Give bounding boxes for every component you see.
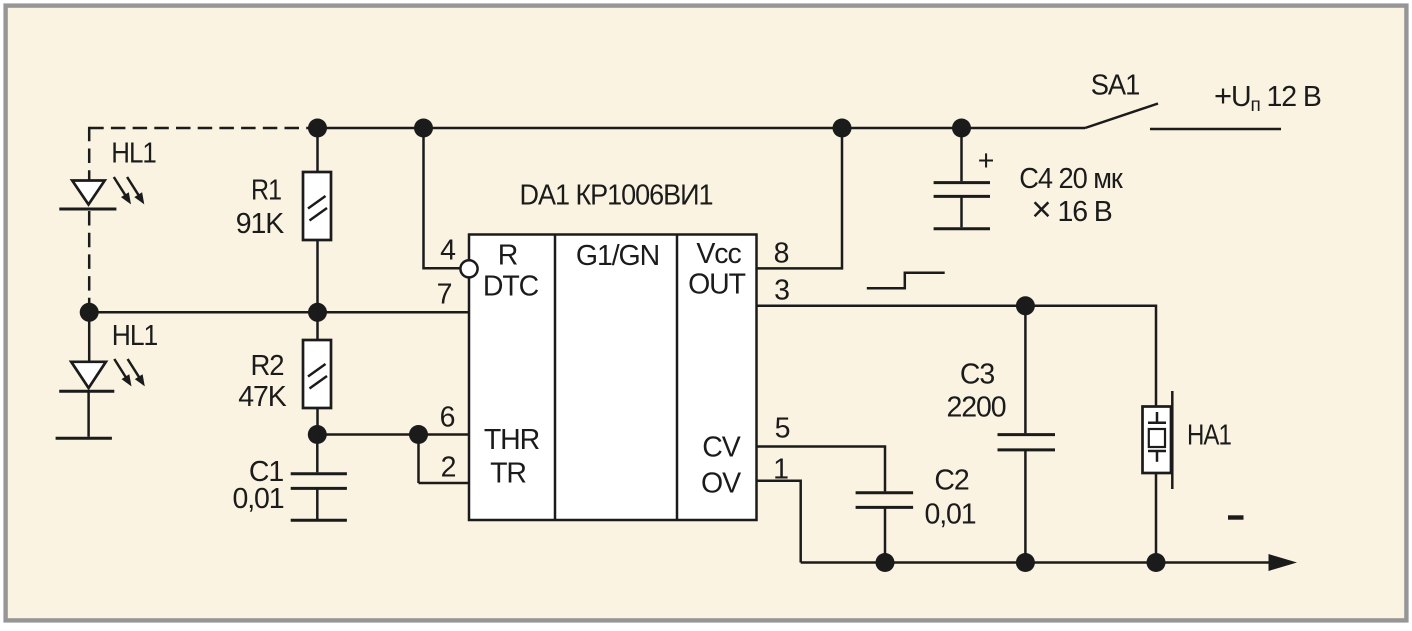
wire: dashed vertical HL1 cathode to mid rail bbox=[88, 211, 91, 312]
buzzer HA1 bbox=[1143, 391, 1173, 489]
LED HL1 (upper) bbox=[59, 181, 116, 210]
wire: mid rail to R2 top bbox=[316, 312, 319, 340]
node: top rail at pin4 drop bbox=[414, 119, 433, 138]
svg-text:+: + bbox=[978, 145, 994, 177]
wire: mid rail to pin 7 bbox=[89, 311, 469, 314]
wire: pin4 drop from top rail bbox=[424, 128, 461, 268]
HL1 upper light arrows bbox=[114, 177, 145, 204]
svg-text:C3: C3 bbox=[960, 359, 994, 391]
svg-text:Vcc: Vcc bbox=[696, 238, 741, 270]
node: top rail at R1 bbox=[308, 119, 327, 138]
node: C2 on bottom rail bbox=[876, 553, 895, 572]
svg-text:G1/GN: G1/GN bbox=[576, 240, 659, 272]
svg-text:91K: 91K bbox=[236, 208, 285, 240]
wire: HL2 anode bbox=[88, 312, 91, 362]
switch SA1 blade bbox=[1085, 104, 1158, 129]
capacitor C1 bbox=[291, 435, 347, 521]
wire: pin 5 to C2 bbox=[757, 447, 886, 492]
terminal bar below lower HL1 bbox=[56, 437, 112, 440]
svg-text:3: 3 bbox=[774, 275, 789, 307]
svg-text:0,01: 0,01 bbox=[232, 483, 283, 515]
DA1 column divider left bbox=[554, 235, 557, 521]
svg-text:HL1: HL1 bbox=[112, 320, 158, 352]
wire: HL2 cathode lead bbox=[87, 391, 90, 437]
svg-text:OV: OV bbox=[701, 468, 741, 500]
node: R1/R2 junction on mid rail bbox=[308, 303, 327, 322]
node: top rail at pin8 riser bbox=[833, 119, 852, 138]
svg-text:2200: 2200 bbox=[946, 392, 1005, 424]
svg-text:× 16 В: × 16 В bbox=[1031, 190, 1111, 229]
wire: pin 8 to top rail bbox=[757, 128, 843, 268]
svg-text:OUT: OUT bbox=[688, 269, 746, 301]
capacitor C4 (polarized) bbox=[934, 128, 990, 229]
node: mid-rail left endpoint bbox=[80, 303, 99, 322]
step waveform symbol bbox=[867, 273, 945, 289]
node: C3 tap on pin3 wire bbox=[1016, 296, 1035, 315]
svg-text:0,01: 0,01 bbox=[924, 499, 975, 531]
wire: node B to pin 6 bbox=[317, 433, 469, 436]
wire: R2 bottom to node B bbox=[316, 408, 319, 435]
HL1 lower light arrows bbox=[114, 359, 145, 386]
svg-text:HL1: HL1 bbox=[111, 138, 156, 170]
wire: top rail solid bbox=[318, 127, 1086, 130]
svg-text:R2: R2 bbox=[251, 350, 284, 382]
svg-text:DA1 КР1006ВИ1: DA1 КР1006ВИ1 bbox=[520, 180, 713, 212]
wire: bottom rail bbox=[801, 561, 1272, 564]
capacitor C3 bbox=[998, 306, 1056, 563]
svg-text:8: 8 bbox=[774, 238, 789, 270]
LED HL1 (lower) bbox=[59, 362, 114, 392]
svg-text:2: 2 bbox=[441, 452, 456, 484]
bottom rail arrowhead bbox=[1269, 554, 1298, 571]
svg-text:C2: C2 bbox=[934, 465, 968, 497]
svg-text:5: 5 bbox=[775, 413, 790, 445]
pin 4 inversion bubble bbox=[460, 260, 477, 277]
svg-text:TR: TR bbox=[490, 458, 526, 490]
capacitor C2 bbox=[856, 493, 914, 563]
wire: pin2 branch down bbox=[417, 435, 420, 484]
svg-text:THR: THR bbox=[484, 424, 540, 456]
node: pin2 branch junction bbox=[409, 425, 428, 444]
svg-text:HA1: HA1 bbox=[1187, 420, 1231, 452]
wire: R1 bottom to mid rail bbox=[316, 240, 319, 312]
svg-text:DTC: DTC bbox=[483, 271, 539, 303]
svg-text:R1: R1 bbox=[251, 175, 281, 207]
resistor R1 bbox=[303, 172, 331, 240]
svg-text:47K: 47K bbox=[238, 381, 287, 413]
switch SA1 fixed contact wire bbox=[1150, 128, 1281, 131]
svg-text:4: 4 bbox=[440, 235, 456, 267]
svg-text:R: R bbox=[498, 240, 518, 272]
svg-text:6: 6 bbox=[440, 402, 455, 434]
wire: pin 3 output run bbox=[757, 306, 1157, 407]
DA1 column divider right bbox=[676, 235, 679, 521]
resistor R2 bbox=[303, 340, 331, 408]
svg-text:CV: CV bbox=[702, 432, 740, 464]
node: HA1 on bottom rail bbox=[1147, 553, 1166, 572]
wire: HA1 to bottom rail bbox=[1155, 473, 1158, 563]
wire: pin 1 to bottom rail bbox=[757, 481, 801, 563]
node B: R2/C1/pin6 junction bbox=[308, 425, 327, 444]
svg-text:+Uп 12 В: +Uп 12 В bbox=[1214, 78, 1321, 116]
node: top rail at C4 bbox=[952, 119, 971, 138]
op-amp/timer DA1 box bbox=[469, 235, 757, 521]
wire: pin2 branch to IC bbox=[419, 482, 470, 485]
node: C3 on bottom rail bbox=[1016, 553, 1035, 572]
svg-text:7: 7 bbox=[437, 279, 452, 311]
label minus bbox=[1228, 515, 1244, 519]
wire: rail to R1 top bbox=[316, 128, 319, 172]
wire: dashed vertical to HL1 anode bbox=[88, 127, 91, 180]
svg-text:SA1: SA1 bbox=[1091, 70, 1140, 102]
wire: dashed top rail from LED1 to node A bbox=[89, 127, 317, 130]
